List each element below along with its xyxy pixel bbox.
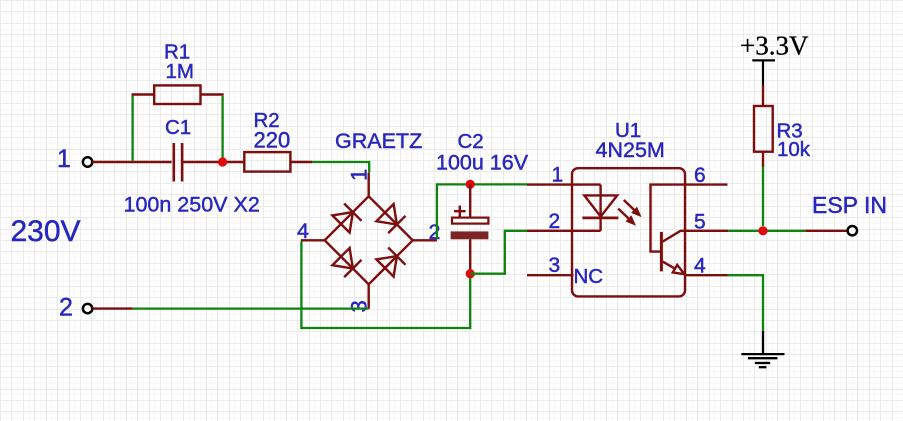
bridge GRAETZ pin 1 stub (368, 173, 370, 197)
svg-text:220: 220 (254, 127, 291, 152)
diode left-top (332, 204, 361, 233)
svg-text:4N25M: 4N25M (596, 138, 665, 162)
resistor R1 (154, 85, 200, 104)
U1 pin 2 wire (527, 230, 601, 232)
resistor R3 (754, 106, 773, 152)
optocoupler U1 box (572, 168, 685, 296)
wire R3 bottom pin (762, 152, 764, 167)
wire net junction up to R3 (762, 167, 764, 227)
svg-text:1M: 1M (166, 60, 194, 83)
U1 pin 5 stub (685, 230, 728, 232)
capacitor C2 bottom pin (469, 239, 471, 273)
svg-text:4: 4 (694, 255, 706, 278)
phototransistor inside U1 (651, 185, 686, 275)
svg-text:+3.3V: +3.3V (740, 31, 809, 61)
svg-text:3: 3 (347, 300, 372, 312)
svg-text:6: 6 (694, 164, 706, 187)
ground symbol (741, 331, 784, 367)
C2 plus sign (454, 206, 466, 218)
LED light arrows (618, 200, 641, 226)
svg-text:230V: 230V (11, 215, 81, 248)
C2 bottom plate (451, 231, 489, 239)
bridge frame (diamond) (325, 196, 413, 284)
wire C1 to R2 (183, 161, 244, 163)
svg-text:100n 250V X2: 100n 250V X2 (124, 192, 260, 216)
junction dot C2 top (466, 180, 475, 189)
diode bottom-right (376, 248, 405, 277)
U1 pin 1 wire (527, 183, 601, 185)
wire terminal2 red stub (92, 307, 132, 309)
wire R3 top pin (762, 85, 764, 106)
wire R1 left pin (132, 93, 155, 95)
U1 pin 6 stub (685, 183, 728, 185)
terminal 1 pad (83, 157, 92, 166)
wire green drop R1 right to junction (221, 96, 223, 158)
bridge pin 3 stub (368, 284, 370, 309)
svg-text:3: 3 (549, 254, 561, 277)
supply +3.3V symbol (752, 60, 775, 85)
svg-text:2: 2 (59, 294, 73, 322)
LED inside U1 (582, 185, 618, 231)
collector diagonal (663, 231, 685, 242)
junction dot ESP node (758, 226, 767, 235)
wire net pin4 to ground (728, 275, 764, 331)
base path from pin6 (651, 185, 686, 252)
svg-text:1: 1 (552, 164, 564, 187)
wire net bridge pin2 up to C2 plus rail (437, 184, 527, 239)
terminal ESP pad (848, 226, 857, 235)
svg-text:5: 5 (694, 210, 706, 233)
svg-text:2: 2 (549, 210, 561, 233)
svg-text:10k: 10k (777, 138, 811, 161)
wire R2 right pin (290, 161, 312, 163)
C2 top plate (452, 218, 488, 224)
U1 pin 4 stub (685, 274, 728, 276)
capacitor C1 (174, 143, 182, 182)
bridge pin 4 stub (301, 239, 325, 241)
node junction R1/C1 left (green riser) (131, 96, 133, 161)
wire net R2 to bridge pin1 (312, 162, 369, 173)
capacitor C2 top pin (469, 184, 471, 217)
U1 pin 3 stub (NC) (527, 274, 574, 276)
bridge pin 2 stub (413, 239, 437, 241)
wire R1 right pin (201, 93, 224, 95)
wire net C2 minus jog to U1 pin2 (470, 231, 527, 274)
svg-text:C1: C1 (165, 116, 191, 139)
base bar (660, 232, 663, 272)
wire net pin5 to ESP terminal (728, 230, 805, 232)
svg-text:100u 16V: 100u 16V (436, 150, 529, 174)
terminal 2 pad (83, 304, 92, 313)
emitter arrow (673, 265, 685, 274)
junction dot C2 bottom (466, 269, 475, 278)
diode top-right (376, 204, 405, 233)
diode left-bottom (332, 248, 361, 277)
svg-text:1: 1 (57, 145, 71, 173)
wire net bridge pin4 down and along bottom to C2 minus (301, 242, 470, 329)
emitter diagonal (663, 262, 675, 269)
wire net terminal2 to bridge pin3 (133, 307, 369, 309)
junction dot C1/R1/R2 (218, 157, 227, 166)
svg-text:GRAETZ: GRAETZ (335, 129, 422, 153)
resistor R2 (244, 152, 290, 172)
wire terminal1 to C1 (92, 161, 171, 163)
svg-text:2: 2 (429, 220, 441, 244)
wire ESP terminal red stub (805, 230, 847, 232)
svg-text:ESP IN: ESP IN (812, 192, 887, 218)
svg-text:NC: NC (574, 265, 604, 288)
svg-text:1: 1 (347, 169, 372, 181)
svg-text:4: 4 (297, 219, 309, 243)
